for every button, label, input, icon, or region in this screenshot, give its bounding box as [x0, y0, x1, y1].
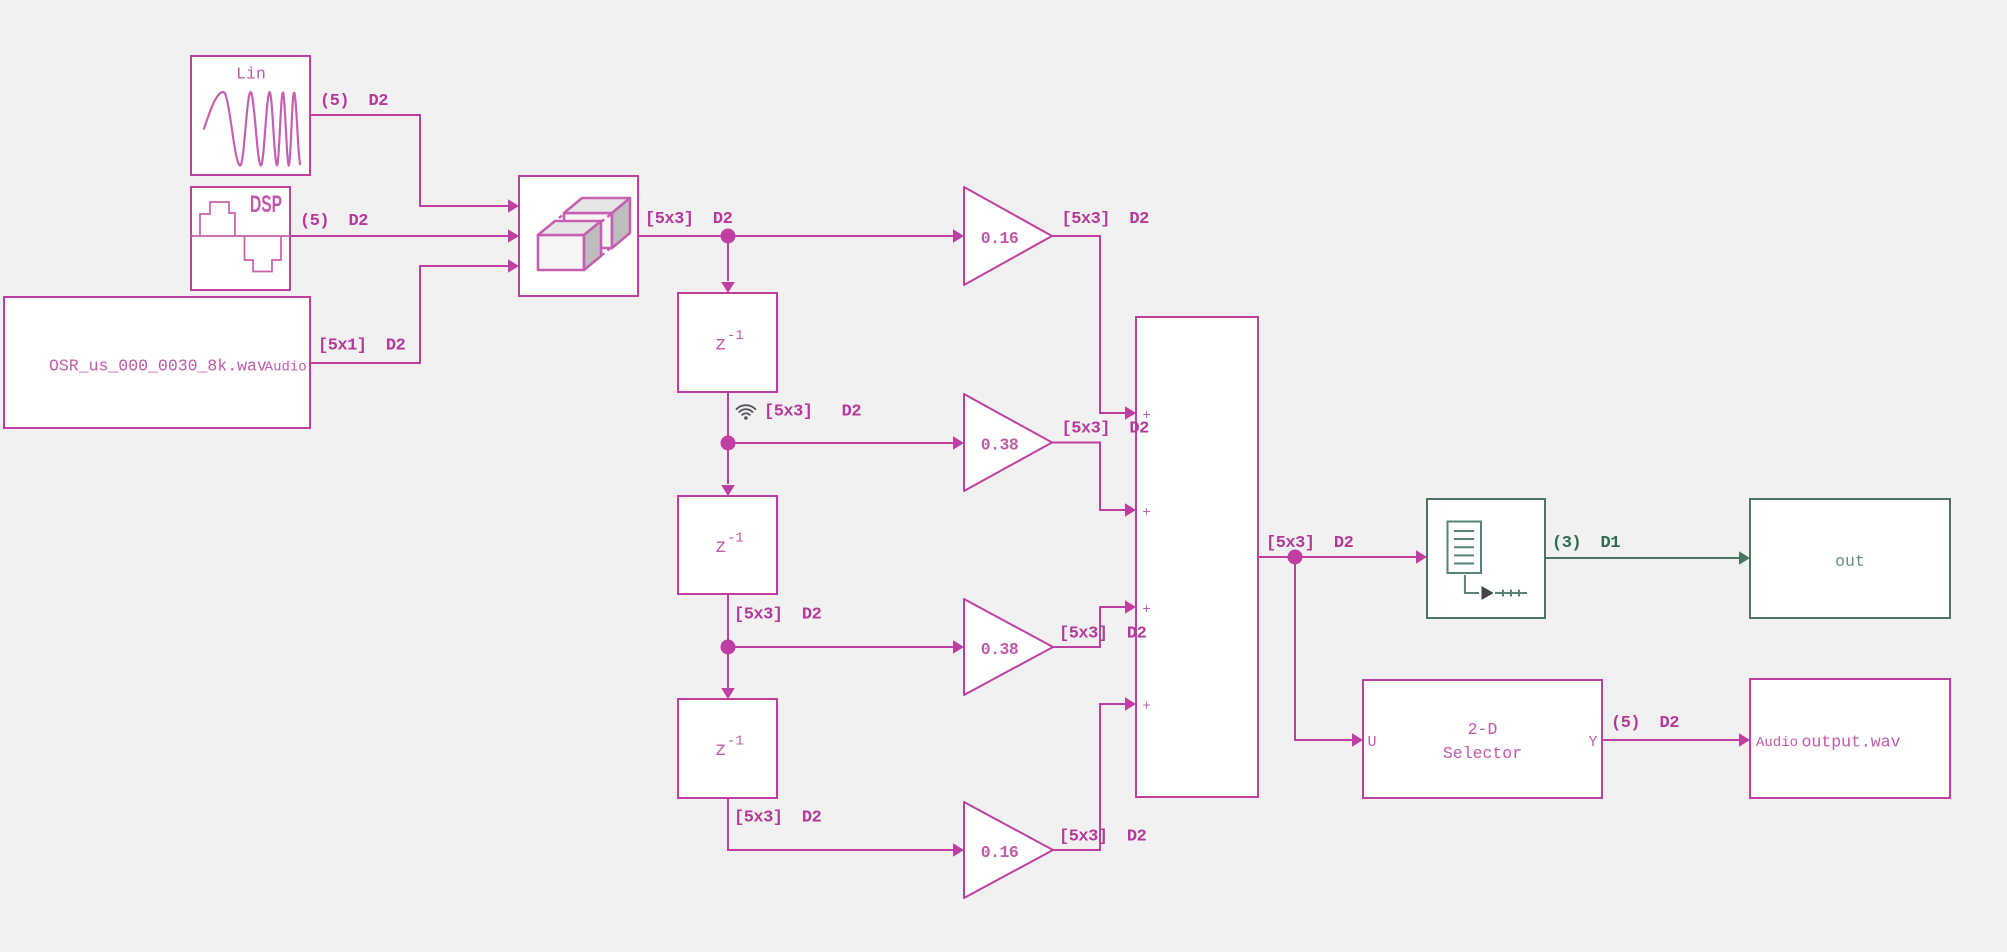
wire: To Workspace -> out (green) [1545, 551, 1750, 565]
svg-text:Audio: Audio [265, 359, 307, 375]
svg-text:-1: -1 [727, 734, 744, 750]
block: Sum of Elements (rectangular) [1136, 317, 1258, 797]
svg-text:Selector: Selector [1443, 744, 1522, 763]
wire: OSR wav -> Matrix Concatenate in3 [310, 259, 519, 363]
svg-text:[5x3] D2: [5x3] D2 [1059, 625, 1147, 644]
wire: Gain4 -> Sum in4 [1053, 697, 1136, 850]
svg-text:[5x3] D2: [5x3] D2 [645, 210, 733, 229]
svg-text:U: U [1368, 734, 1377, 751]
svg-text:-1: -1 [727, 328, 744, 344]
wire: junction down to Delay z1 [721, 236, 735, 293]
svg-text:[5x3] D2: [5x3] D2 [734, 606, 822, 625]
block: From Multimedia File OSR_us_000_0030_8k.wav [4, 297, 310, 428]
junction node on concat output [721, 229, 736, 244]
wire: Sum -> To Workspace with junction [1258, 550, 1427, 564]
wire: z3 -> Gain4 [728, 798, 964, 857]
svg-text:0.16: 0.16 [981, 843, 1019, 862]
svg-text:+: + [1142, 505, 1150, 521]
wire: DSP -> Matrix Concatenate in2 [290, 229, 519, 243]
wire: Lin -> Matrix Concatenate in1 [310, 115, 519, 213]
wire: Selector Y -> output.wav [1602, 733, 1750, 747]
block: DSP sine source [191, 187, 290, 290]
svg-text:[5x3] D2: [5x3] D2 [1062, 210, 1150, 229]
svg-text:+: + [1142, 699, 1150, 715]
junction node below z1 [721, 436, 736, 451]
svg-text:-1: -1 [727, 531, 744, 547]
svg-text:Y: Y [1588, 734, 1597, 751]
svg-text:0.38: 0.38 [981, 640, 1019, 659]
block: Unit Delay z3 [678, 699, 777, 798]
logged-signal wifi badge [737, 405, 756, 420]
wire: Gain3 -> Sum in3 [1053, 600, 1136, 647]
svg-text:(5) D2: (5) D2 [320, 92, 388, 111]
svg-text:[5x3] D2: [5x3] D2 [1062, 420, 1150, 439]
block: Unit Delay z1 [678, 293, 777, 392]
block: 2-D Selector [1363, 680, 1602, 798]
wire: Matrix Concatenate -> Gain1 with junction [638, 229, 964, 243]
svg-text:Audio: Audio [1756, 735, 1798, 751]
svg-text:[5x3] D2: [5x3] D2 [1266, 534, 1354, 553]
svg-text:0.16: 0.16 [981, 229, 1019, 248]
block: Chirp source "Lin" [191, 56, 310, 175]
wire: z2 -> Gain3 with junction [728, 594, 964, 654]
svg-text:z: z [715, 739, 726, 761]
svg-text:Lin: Lin [236, 65, 266, 84]
svg-text:[5x3] D2: [5x3] D2 [1059, 828, 1147, 847]
svg-text:z: z [715, 334, 726, 356]
gain block G4 value 0.16 [964, 802, 1053, 898]
block: To Multimedia File output.wav [1750, 679, 1950, 798]
block: Matrix Concatenate (two 3-D boxes icon) [519, 176, 638, 296]
svg-text:[5x3] D2: [5x3] D2 [734, 809, 822, 828]
junction node on sum output [1288, 550, 1303, 565]
svg-text:[5x1] D2: [5x1] D2 [318, 337, 406, 356]
gain block G2 value 0.38 [964, 394, 1052, 491]
svg-text:2-D: 2-D [1468, 720, 1498, 739]
gain block G1 value 0.16 [964, 187, 1052, 285]
block: Unit Delay z2 [678, 496, 777, 594]
wire: Gain2 -> Sum in2 [1052, 443, 1136, 517]
svg-text:(5) D2: (5) D2 [300, 212, 368, 231]
svg-text:out: out [1835, 552, 1865, 571]
wire: Gain1 -> Sum in1 [1052, 236, 1136, 420]
gain block G3 value 0.38 [964, 599, 1053, 695]
svg-text:(3) D1: (3) D1 [1552, 534, 1620, 553]
wire: z1 -> Gain2 with junction [728, 392, 964, 450]
wire: junction down to z3 [721, 647, 735, 699]
svg-text:0.38: 0.38 [981, 436, 1019, 455]
svg-text:[5x3] D2: [5x3] D2 [764, 403, 861, 422]
svg-text:OSR_us_000_0030_8k.wav: OSR_us_000_0030_8k.wav [49, 357, 267, 376]
block: out (green) [1750, 499, 1950, 618]
svg-text:+: + [1142, 602, 1150, 618]
block: To Workspace (timeseries icon, green) [1427, 499, 1545, 618]
wire: junction down to z2 [721, 443, 735, 496]
svg-text:output.wav: output.wav [1802, 733, 1901, 752]
svg-text:DSP: DSP [250, 191, 282, 218]
junction node below z2 [721, 640, 736, 655]
wire: junction -> 2-D Selector [1295, 557, 1363, 747]
svg-text:(5) D2: (5) D2 [1611, 714, 1679, 733]
svg-text:z: z [715, 536, 726, 558]
